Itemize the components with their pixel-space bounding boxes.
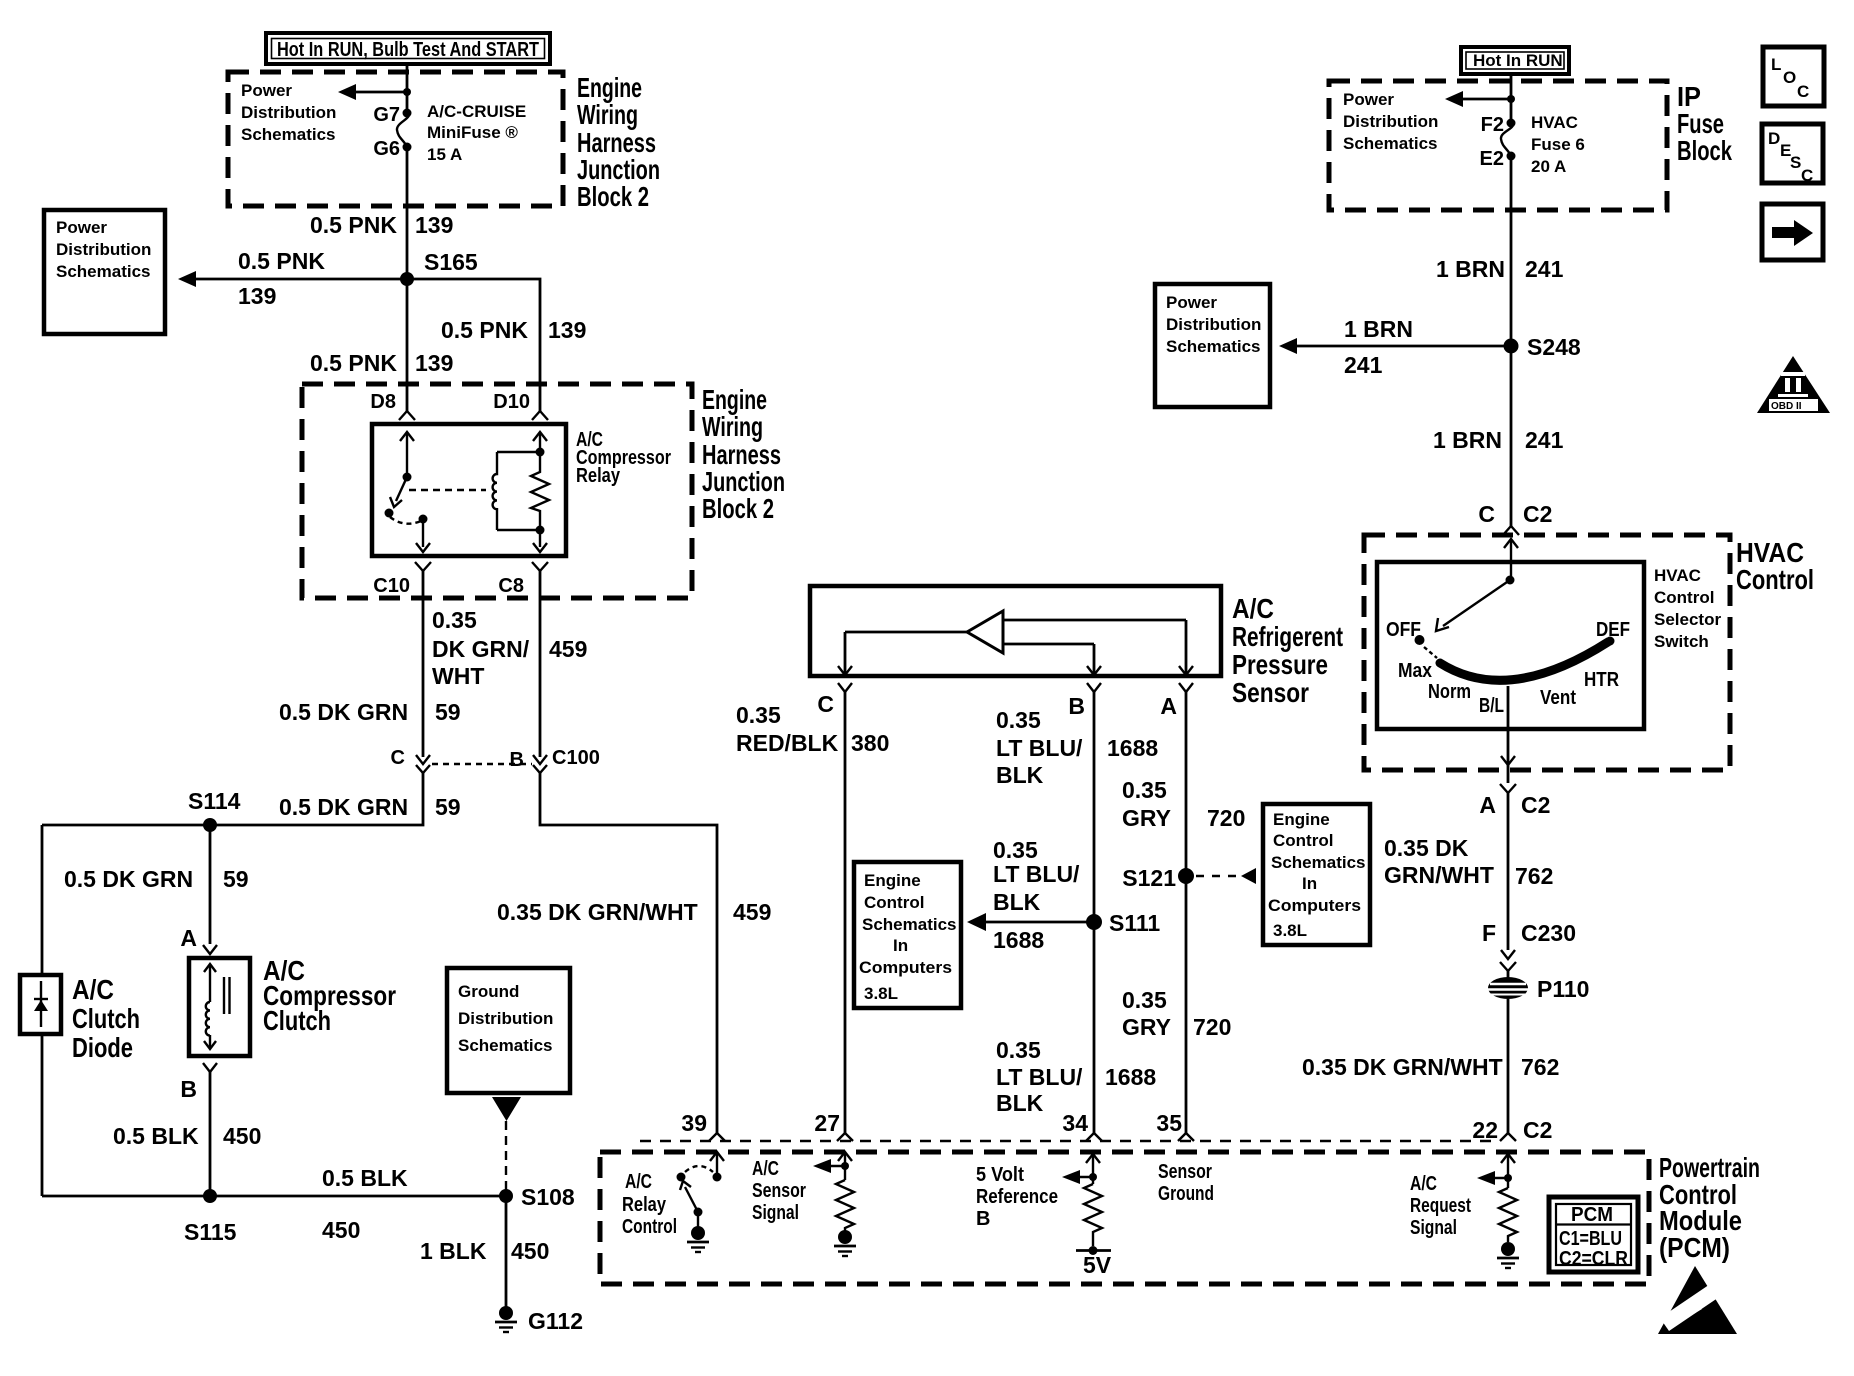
svg-text:Request: Request [1410,1195,1471,1217]
svg-text:HTR: HTR [1584,669,1619,691]
svg-text:C2: C2 [1523,1117,1552,1143]
svg-text:C100: C100 [552,747,600,769]
svg-text:C: C [817,691,834,717]
wire 0.5 PNK 139 from fuse to S165 [406,147,409,279]
svg-text:RED/BLK: RED/BLK [736,730,839,756]
svg-text:S121: S121 [1122,865,1176,891]
resistor (pin 34) [1084,1184,1102,1246]
svg-text:C8: C8 [498,575,524,597]
wire label 0.35 LT BLU/BLK 1688 (lower) [996,1037,1156,1116]
relay coil [493,448,545,535]
svg-text:Engine: Engine [864,871,921,890]
svg-text:A: A [1160,693,1177,719]
text Power Distribution Schematics (IP fuse box) [1343,90,1438,153]
title box Hot In RUN [1461,47,1569,74]
svg-text:Distribution: Distribution [1166,315,1261,334]
svg-text:A/C: A/C [752,1158,779,1180]
relay fixed contact arrow (from D8) [400,432,414,482]
svg-text:Schematics: Schematics [56,262,151,281]
position labels Max Norm B/L Vent HTR [1398,660,1619,717]
svg-text:0.35: 0.35 [432,607,477,633]
HVAC Control Selector Switch box [1377,562,1644,729]
IP Fuse Block dashed box [1329,81,1667,210]
svg-text:Sensor: Sensor [1158,1161,1212,1183]
text Power Distribution Schematics (in fuse dashed box) [241,81,336,144]
svg-text:139: 139 [548,317,586,343]
svg-text:0.5 DK GRN: 0.5 DK GRN [279,699,408,725]
svg-text:Clutch: Clutch [72,1003,140,1034]
svg-text:Sensor: Sensor [1232,677,1309,708]
relay contact dashed throw arc [390,517,421,524]
svg-text:Control: Control [1736,564,1814,595]
ground G112 [495,1306,583,1334]
svg-text:BLK: BLK [993,889,1041,915]
svg-text:Schematics: Schematics [241,125,336,144]
wire 1 BLK 450 to G112 [505,1196,508,1310]
node S111 [1086,914,1102,930]
wire S114 down to A/C compressor clutch [209,825,212,944]
svg-text:1688: 1688 [1107,735,1158,761]
svg-text:LT BLU/: LT BLU/ [996,735,1083,761]
svg-text:B: B [180,1076,197,1102]
svg-text:Max: Max [1398,660,1432,682]
svg-text:Relay: Relay [576,465,621,487]
svg-text:1 BLK: 1 BLK [420,1238,487,1264]
wire 1 BRN 241 S248 down to HVAC [1510,346,1513,526]
label 5 Volt Reference B [976,1164,1058,1230]
node S248 [1504,339,1519,354]
relay coil actuation dashed link [409,489,486,491]
svg-text:20 A: 20 A [1531,157,1566,176]
A/C Clutch Diode box [20,975,61,1034]
svg-text:Schematics: Schematics [1343,134,1438,153]
HVAC Control dashed box [1364,535,1730,770]
svg-text:B/L: B/L [1479,695,1504,717]
node S108 [499,1189,513,1203]
A/C Clutch Diode branch wire (left loop) [41,825,44,975]
connector D10 [493,391,548,420]
PCM pin 22 / C2 [1472,1117,1552,1143]
svg-text:O: O [1783,68,1796,87]
Powertrain Control Module dashed box [600,1152,1649,1284]
svg-text:Clutch: Clutch [263,1005,331,1036]
label A/C Sensor Signal [752,1158,806,1224]
ground (pin 27) [834,1230,856,1256]
svg-text:HVAC: HVAC [1531,113,1578,132]
connector C / C2 into HVAC control [1478,501,1552,535]
svg-text:Control: Control [1654,588,1714,607]
svg-text:Reference: Reference [976,1186,1058,1208]
svg-text:0.5 PNK: 0.5 PNK [310,350,397,376]
svg-text:0.5 PNK: 0.5 PNK [441,317,528,343]
svg-text:34: 34 [1062,1110,1088,1136]
node S121 [1178,868,1194,884]
svg-text:L: L [1771,55,1781,74]
wire label 0.35 GRY 720 (lower) [1122,987,1231,1040]
svg-text:G6: G6 [373,138,400,160]
grommet P110 [1488,971,1589,1002]
label Engine Wiring Harness Junction Block 2 (relay) [702,384,785,524]
svg-text:27: 27 [814,1110,840,1136]
svg-text:C2: C2 [1521,792,1550,818]
svg-text:P110: P110 [1537,976,1589,1002]
svg-text:22: 22 [1472,1117,1498,1143]
icon box forward arrow [1762,204,1823,260]
svg-text:Distribution: Distribution [1343,112,1438,131]
svg-text:Norm: Norm [1428,681,1471,703]
dashed link OFF to Max [1424,647,1437,658]
svg-text:A: A [180,925,197,951]
connector C10 [373,562,431,597]
arrow to Power Distribution Schematics (IP) [1445,91,1515,107]
svg-text:Ground: Ground [458,982,519,1001]
svg-text:DK GRN/: DK GRN/ [432,636,530,662]
wire B down and right to pin 39 drop [540,773,717,1133]
label Engine Wiring Harness Junction Block 2 (top) [577,72,660,212]
svg-text:F: F [1482,920,1496,946]
svg-text:(PCM): (PCM) [1659,1232,1730,1263]
wire + arrow from S165 to Power Distribution Schematics box [178,248,407,309]
svg-text:In: In [893,936,908,955]
resistor (pin 27) [836,1180,854,1231]
HVAC output wire [1501,686,1515,765]
svg-text:3.8L: 3.8L [1273,921,1307,940]
label A/C Relay Control [622,1171,677,1238]
wire C 0.35 RED/BLK 380 down to pin 27 [844,692,847,1133]
svg-text:Distribution: Distribution [241,103,336,122]
A/C request signal (pin 22) [1477,1154,1515,1188]
icon box DESC [1762,124,1823,185]
connector D8 [370,391,415,420]
label Powertrain Control Module (PCM) [1659,1152,1760,1263]
reference box Engine Control Schematics In Computers 3.8L (left) [854,862,961,1008]
svg-text:G7: G7 [373,104,400,126]
5 volt reference B (pin 34) [1062,1154,1100,1184]
relay coil top arrow (to D10) [533,432,547,452]
svg-text:A/C-CRUISE: A/C-CRUISE [427,102,526,121]
svg-text:S108: S108 [521,1184,575,1210]
svg-text:0.35: 0.35 [993,837,1038,863]
A/C relay control switch (pin 39) [677,1152,725,1227]
svg-text:In: In [1302,874,1317,893]
svg-text:139: 139 [238,283,276,309]
svg-text:C2=CLR: C2=CLR [1559,1248,1628,1270]
svg-text:Schematics: Schematics [1166,337,1261,356]
svg-text:Block: Block [1677,135,1732,166]
wire A 0.35 GRY 720 down to pin 35 [1185,692,1188,1133]
svg-text:LT BLU/: LT BLU/ [996,1064,1083,1090]
dashed wire S108 to ground reference [505,1121,507,1196]
svg-text:0.35: 0.35 [996,1037,1041,1063]
svg-text:Hot In RUN, Bulb Test And STAR: Hot In RUN, Bulb Test And START [277,39,539,61]
svg-text:459: 459 [549,636,587,662]
dashed arrow S121 to Engine Control Schematics (right) [1196,868,1256,884]
reference box Power Distribution Schematics (right) [1155,284,1270,407]
wire 0.5 BLK 450 clutch to S115 [209,1072,212,1196]
svg-text:Fuse 6: Fuse 6 [1531,135,1585,154]
title box Hot In RUN, Bulb Test And START [266,33,550,64]
svg-text:C10: C10 [373,575,410,597]
wire S165 right branch to D10 [407,279,540,411]
svg-text:762: 762 [1515,863,1553,889]
svg-text:A/C: A/C [1232,593,1274,624]
svg-text:Signal: Signal [1410,1217,1457,1239]
svg-text:450: 450 [511,1238,549,1264]
svg-text:Block 2: Block 2 [577,181,649,212]
svg-text:MiniFuse ®: MiniFuse ® [427,123,518,142]
label HVAC Control [1736,537,1814,595]
svg-text:Distribution: Distribution [458,1009,553,1028]
connector C (sensor) [817,683,852,717]
fuse A/C-CRUISE MiniFuse 15 A (terminals G7/G6) [373,102,526,164]
svg-text:59: 59 [435,794,461,820]
OFF contact [1386,619,1425,645]
wire from title box down through fuse box [406,64,409,112]
svg-text:0.35: 0.35 [1122,987,1167,1013]
svg-text:OFF: OFF [1386,619,1421,641]
svg-text:C1=BLU: C1=BLU [1559,1228,1622,1250]
svg-text:Power: Power [241,81,292,100]
svg-text:1 BRN: 1 BRN [1344,316,1413,342]
A/C Compressor Relay box [372,424,566,556]
svg-text:Selector: Selector [1654,610,1721,629]
svg-text:59: 59 [435,699,461,725]
svg-text:Block 2: Block 2 [702,493,774,524]
svg-text:A/C: A/C [625,1171,652,1193]
PCM pin 35 [1156,1110,1194,1141]
A/C Refrigerent Pressure Sensor box [810,586,1221,676]
selector switch wiper [1436,539,1518,631]
wire C down to S114 level [42,773,423,825]
node S165 [400,272,414,286]
svg-text:0.5 DK GRN: 0.5 DK GRN [64,866,193,892]
label A/C Request Signal [1410,1173,1471,1239]
PCM pin 27 [814,1110,853,1141]
svg-text:BLK: BLK [996,762,1044,788]
connector B (clutch) [180,1063,217,1102]
icon OBD II triangle [1757,356,1830,413]
arrow S111 to Engine Control Schematics (left) [967,837,1094,953]
svg-text:Diode: Diode [72,1032,133,1063]
A/C Compressor Clutch box [189,958,250,1056]
svg-text:Pressure: Pressure [1232,649,1328,680]
svg-text:GRY: GRY [1122,805,1171,831]
svg-text:0.5 PNK: 0.5 PNK [238,248,325,274]
PCM legend box [1549,1197,1638,1272]
svg-text:Sensor: Sensor [752,1180,806,1202]
svg-text:0.35 DK GRN/WHT: 0.35 DK GRN/WHT [497,899,698,925]
svg-text:E2: E2 [1480,148,1504,170]
svg-text:GRY: GRY [1122,1014,1171,1040]
relay resistor [531,452,549,530]
A/C sensor signal input (pin 27) [813,1152,852,1180]
icon box LOC [1763,47,1824,106]
svg-text:Schematics: Schematics [862,915,957,934]
svg-text:S115: S115 [184,1219,237,1245]
svg-text:C: C [391,747,405,769]
svg-text:OBD II: OBD II [1771,401,1802,412]
wire 1 BRN 241 fuse to S248 [1510,156,1513,346]
clutch coil and plates [204,964,230,1049]
connector C8 [498,562,548,597]
svg-text:Engine: Engine [1273,810,1330,829]
arrow to Power Distribution Schematics (top left) [338,84,411,100]
svg-text:C: C [1801,166,1813,185]
svg-text:S165: S165 [424,249,478,275]
node S115 and ground run [203,1189,217,1203]
connector A (clutch) [180,925,217,954]
svg-text:C: C [1478,501,1495,527]
svg-text:S114: S114 [188,788,241,814]
PCM pin 34 [1062,1110,1102,1141]
label IP Fuse Block [1677,81,1732,166]
selector positions arc [1440,642,1608,680]
svg-text:Power: Power [56,218,107,237]
node S114 [203,818,217,832]
svg-text:Control: Control [864,893,924,912]
svg-text:B: B [976,1208,990,1230]
svg-text:0.5 DK GRN: 0.5 DK GRN [279,794,408,820]
svg-text:720: 720 [1193,1014,1231,1040]
relay movable arm [385,477,408,518]
svg-text:G112: G112 [528,1308,583,1334]
svg-text:5 Volt: 5 Volt [976,1164,1024,1186]
wire label 0.5 DK GRN 59 [279,699,461,725]
svg-text:D: D [1768,129,1780,148]
label Sensor Ground (pin 35) [1158,1161,1214,1205]
wire B 0.35 LT BLU/BLK 1688 down to pin 34 [1093,692,1096,1133]
svg-text:1688: 1688 [1105,1064,1156,1090]
svg-text:Computers: Computers [1268,896,1361,915]
fuse HVAC Fuse 6 20 A (terminals F2/E2) [1480,113,1585,176]
sensor internal wires [838,620,1193,675]
svg-text:S111: S111 [1109,910,1160,936]
PCM pin 39 [681,1110,725,1141]
reference box Power Distribution Schematics (left) [44,210,165,334]
connector B (sensor) [1068,683,1101,719]
wire S165 down to D8 [406,279,409,411]
arrow from Ground Distribution Schematics [492,1097,521,1121]
ground (pin 22) [1497,1242,1519,1268]
svg-text:S248: S248 [1527,334,1581,360]
inline connector C100 terminal C [391,747,532,773]
relay coil bottom arrow (to C8) [533,530,547,552]
svg-text:0.35 DK: 0.35 DK [1384,835,1469,861]
svg-text:Hot In RUN: Hot In RUN [1473,51,1563,70]
svg-text:C230: C230 [1521,920,1576,946]
svg-text:Control: Control [622,1216,677,1238]
svg-text:0.35 DK GRN/WHT: 0.35 DK GRN/WHT [1302,1054,1503,1080]
svg-text:HVAC: HVAC [1654,566,1701,585]
relay dashed box (Engine Wiring Harness Junction Block 2) [302,384,692,598]
svg-text:S: S [1790,153,1801,172]
svg-text:59: 59 [223,866,249,892]
svg-text:450: 450 [223,1123,261,1149]
svg-text:B: B [1068,693,1085,719]
wire 0.35 DK GRN/WHT 762 to PCM pin 22 [1507,999,1510,1133]
svg-text:A/C: A/C [1410,1173,1437,1195]
svg-text:720: 720 [1207,805,1245,831]
svg-text:BLK: BLK [996,1090,1044,1116]
svg-text:0.5 BLK: 0.5 BLK [113,1123,199,1149]
Ground Distribution Schematics box [447,968,570,1093]
svg-text:Schematics: Schematics [458,1036,553,1055]
svg-text:39: 39 [681,1110,707,1136]
svg-text:380: 380 [851,730,889,756]
svg-text:Vent: Vent [1540,687,1576,709]
svg-text:0.35: 0.35 [996,707,1041,733]
connector A / C2 (HVAC out) [1479,765,1550,818]
svg-text:15 A: 15 A [427,145,462,164]
svg-text:C: C [1797,82,1809,101]
svg-text:Wiring: Wiring [702,411,763,442]
svg-text:241: 241 [1525,256,1564,282]
svg-text:Relay: Relay [622,1194,667,1216]
wire C8 down to connector C100-B [539,571,542,757]
relay output contact to C10 [416,515,430,553]
svg-text:Control: Control [1273,831,1333,850]
inline connector C100 terminal B [510,747,600,773]
svg-text:F2: F2 [1481,114,1504,136]
svg-text:1688: 1688 [993,927,1044,953]
svg-text:Schematics: Schematics [1271,853,1366,872]
svg-text:0.35: 0.35 [1122,777,1167,803]
svg-text:1 BRN: 1 BRN [1436,256,1505,282]
reference box Engine Control Schematics In Computers 3.8L (right) [1263,804,1370,945]
sensor amplifier triangle [967,611,1003,653]
PCM connector C1 thin dashed line [640,1140,1497,1142]
svg-text:0.5 BLK: 0.5 BLK [322,1165,408,1191]
arrow S248 to Power Distribution Schematics (right) [1279,316,1511,378]
svg-text:3.8L: 3.8L [864,984,898,1003]
svg-text:PCM: PCM [1571,1204,1613,1226]
svg-text:0.5 PNK: 0.5 PNK [310,212,397,238]
svg-text:Power: Power [1343,90,1394,109]
svg-text:459: 459 [733,899,771,925]
svg-text:Wiring: Wiring [577,99,638,130]
svg-text:139: 139 [415,350,453,376]
svg-text:Computers: Computers [859,958,952,977]
connector A (sensor) [1160,683,1193,719]
svg-text:A/C: A/C [72,974,114,1005]
svg-text:Signal: Signal [752,1202,799,1224]
connector F / C230 [1482,920,1576,971]
wire from Hot In RUN down [1510,74,1513,121]
svg-text:D8: D8 [370,391,396,413]
svg-text:Refrigerent: Refrigerent [1232,621,1343,652]
svg-text:450: 450 [322,1217,360,1243]
svg-text:241: 241 [1344,352,1383,378]
resistor (pin 22) [1499,1188,1517,1242]
svg-text:Distribution: Distribution [56,240,151,259]
svg-text:C2: C2 [1523,501,1552,527]
svg-text:5V: 5V [1083,1252,1112,1278]
svg-text:LT BLU/: LT BLU/ [993,861,1080,887]
svg-text:35: 35 [1156,1110,1182,1136]
wire label 0.35 DK GRN/WHT 459 [432,607,587,689]
svg-text:1 BRN: 1 BRN [1433,427,1502,453]
engine wiring harness junction block 2 dashed box (fuse block) [228,72,563,206]
svg-text:Power: Power [1166,293,1217,312]
svg-text:B: B [510,749,524,771]
svg-text:Switch: Switch [1654,632,1709,651]
icon ESD warning symbol [1658,1266,1737,1334]
svg-text:D10: D10 [493,391,530,413]
svg-text:139: 139 [415,212,453,238]
wire C10 down to connector C100-C [422,571,425,757]
ground (pin 39) [687,1226,709,1252]
svg-text:Ground: Ground [1158,1183,1214,1205]
